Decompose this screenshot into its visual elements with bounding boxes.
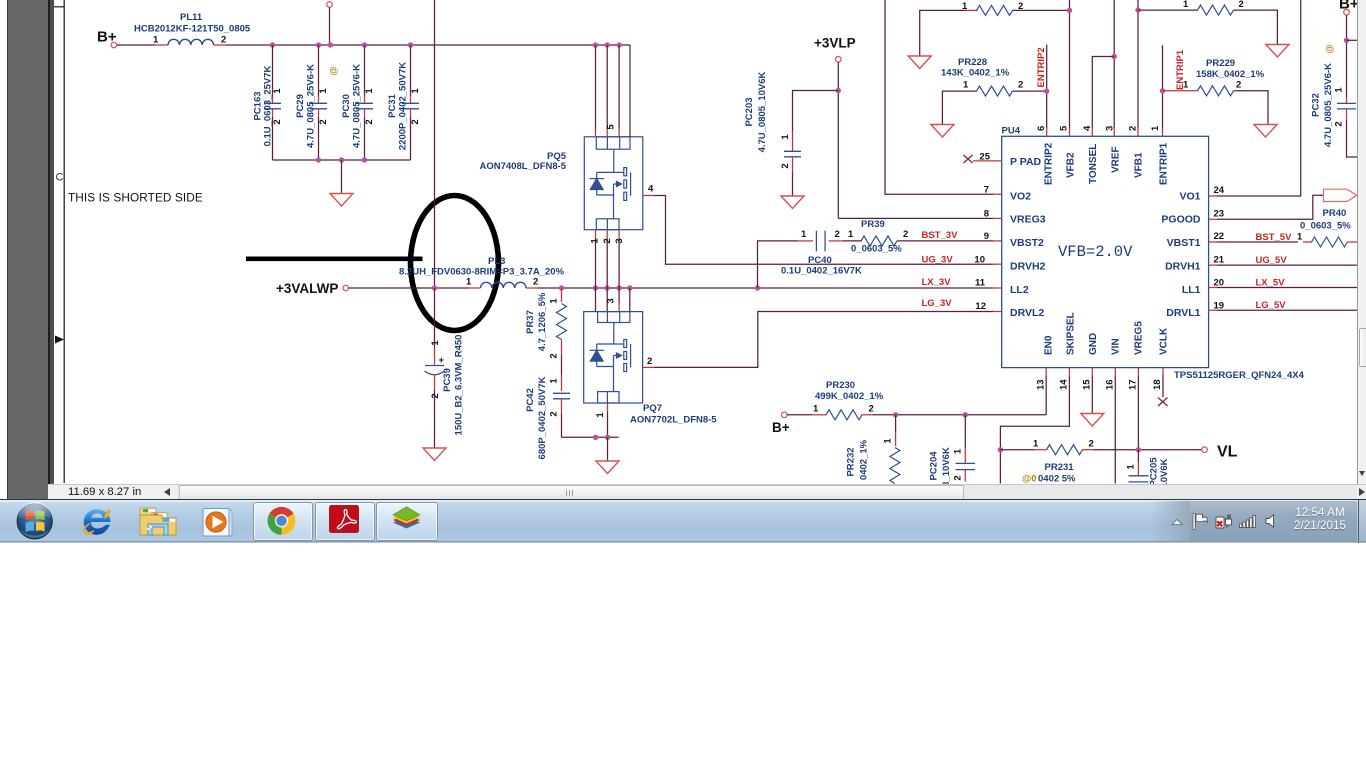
svg-text:150U_B2_6.3VM_R450: 150U_B2_6.3VM_R450 (454, 335, 465, 436)
svg-text:ENTRIP1: ENTRIP1 (1159, 142, 1170, 185)
annotation ellipse (411, 196, 499, 331)
svg-text:C: C (56, 172, 64, 184)
svg-text:BST_3V: BST_3V (922, 230, 959, 241)
svg-text:PC204: PC204 (929, 451, 940, 481)
svg-text:1: 1 (780, 134, 791, 140)
svg-text:1: 1 (1033, 439, 1039, 450)
svg-text:DRVH1: DRVH1 (1165, 261, 1201, 273)
PU4 left pin names (1010, 156, 1046, 319)
svg-text:PL3: PL3 (488, 256, 505, 267)
viewer furniture: left gray panel (0, 0, 7, 499)
svg-text:2: 2 (549, 353, 560, 358)
svg-text:16: 16 (1105, 379, 1116, 390)
svg-text:+3VALWP: +3VALWP (276, 281, 338, 296)
svg-text:5: 5 (1059, 125, 1070, 131)
svg-text:UG_3V: UG_3V (922, 255, 954, 266)
wire VREG3 row to PU4 pin 8 (838, 217, 993, 219)
svg-text:PGOOD: PGOOD (1161, 214, 1201, 226)
annotation thick black line (246, 256, 423, 261)
transistor PQ7 (584, 312, 643, 403)
svg-text:0402 5%: 0402 5% (1038, 474, 1076, 485)
svg-text:LG_5V: LG_5V (1256, 300, 1287, 311)
svg-text:VREF: VREF (1111, 146, 1122, 173)
wire LX rail to PU4 pin 11 (538, 287, 993, 289)
ground top right (1266, 45, 1289, 58)
capacitor PC204 (929, 415, 976, 487)
svg-text:VFB1: VFB1 (1134, 152, 1145, 178)
svg-text:8.2UH_FDV0630-8RIM=P3_3.7A_20%: 8.2UH_FDV0630-8RIM=P3_3.7A_20% (399, 267, 565, 278)
frame position arrow (55, 336, 64, 344)
long vertical wire through ellipse (434, 0, 436, 288)
svg-text:VO1: VO1 (1179, 191, 1200, 203)
svg-text:3: 3 (1105, 126, 1116, 131)
svg-text:ENTRIP2: ENTRIP2 (1044, 142, 1055, 185)
svg-text:0402_1%: 0402_1% (859, 439, 870, 480)
svg-text:LX_3V: LX_3V (922, 277, 952, 288)
PU4 right pin names (1161, 191, 1201, 320)
svg-text:0.1U_0603_25V7K: 0.1U_0603_25V7K (263, 65, 274, 146)
svg-text:2: 2 (549, 411, 560, 416)
svg-text:1: 1 (549, 378, 560, 384)
resistor PR37 (525, 288, 567, 359)
svg-text:1: 1 (466, 277, 472, 288)
svg-text:PR232: PR232 (846, 447, 857, 476)
svg-text:1: 1 (1183, 80, 1189, 91)
svg-text:1: 1 (883, 438, 894, 444)
svg-text:PC30: PC30 (341, 94, 352, 118)
pin 18 no-connect X (1162, 368, 1164, 374)
IE icon (80, 507, 114, 537)
svg-text:VL: VL (1217, 444, 1238, 461)
svg-text:2: 2 (835, 229, 840, 240)
svg-text:2: 2 (953, 475, 964, 480)
tray show-hidden arrow (1170, 517, 1184, 527)
svg-text:15: 15 (1082, 379, 1093, 390)
svg-text:4.7U_0805_25V6-K: 4.7U_0805_25V6-K (352, 64, 363, 148)
frame tick (54, 6, 65, 8)
svg-text:0_0603_5%: 0_0603_5% (851, 244, 902, 255)
svg-text:1: 1 (410, 88, 421, 94)
svg-text:4.7U_0805_25V6-K: 4.7U_0805_25V6-K (306, 64, 317, 148)
wires B+ rail down to PQ5 drain pins (595, 45, 597, 129)
svg-text:10V6K: 10V6K (1159, 458, 1170, 484)
off-page connector arrow PGOOD (1324, 189, 1357, 201)
svg-text:2: 2 (221, 35, 226, 46)
svg-text:PC205: PC205 (1149, 457, 1160, 484)
svg-text:1: 1 (590, 238, 601, 244)
svg-text:1: 1 (549, 298, 560, 304)
svg-text:2: 2 (1239, 0, 1244, 10)
wire LX dot up to bootstrap row (758, 241, 799, 288)
capacitor PC205 (cut at bottom) (1126, 450, 1171, 488)
svg-text:2: 2 (1128, 126, 1139, 131)
PU4 bottom pin numbers (1036, 379, 1164, 390)
tray signal bars icon (1239, 515, 1257, 528)
svg-text:0.1U_0402_16V7K: 0.1U_0402_16V7K (781, 266, 862, 277)
PQ5 pin 4 (gate) wire to DRVH2 (643, 195, 654, 197)
wire VREF riser (pin 3) with branch to TONSEL (pin 4) (1113, 0, 1115, 128)
resistor PR229 (1163, 58, 1269, 125)
svg-text:PR229: PR229 (1206, 58, 1235, 69)
svg-text:5: 5 (606, 124, 617, 130)
wire VO1 pin 24 to top riser (1209, 195, 1217, 197)
svg-text:PR231: PR231 (1045, 462, 1075, 473)
svg-text:PC42: PC42 (525, 388, 536, 412)
net stub ENTRIP1 (pin 1) (1162, 45, 1164, 128)
capacitor PC40 (781, 229, 862, 277)
wire EN0 pin 13 down to B+ rail (1045, 368, 1047, 376)
svg-text:PL11: PL11 (180, 12, 203, 23)
svg-text:3: 3 (614, 238, 625, 243)
svg-text:2: 2 (364, 119, 375, 124)
ground under PR229 (1254, 125, 1277, 138)
svg-text:1: 1 (813, 404, 819, 415)
tray clock (1286, 506, 1354, 532)
svg-text:VO2: VO2 (1010, 191, 1031, 203)
svg-text:VREG3: VREG3 (1010, 214, 1046, 226)
tray flag icon (1192, 513, 1208, 530)
bluestacks task button (376, 502, 438, 541)
resistor PR230 (772, 380, 1046, 435)
svg-text:P PAD: P PAD (1010, 156, 1042, 168)
capacitor PC29 (295, 45, 329, 160)
svg-text:158K_0402_1%: 158K_0402_1% (1196, 69, 1265, 80)
svg-text:DRVL2: DRVL2 (1010, 307, 1044, 319)
PU4 left pin numbers (974, 152, 990, 313)
svg-text:4: 4 (1082, 125, 1093, 131)
svg-text:GND: GND (1088, 333, 1099, 355)
wire VFB2 riser (pin 5) (1069, 0, 1071, 128)
svg-text:VIN: VIN (1111, 338, 1122, 355)
ground riser with divider resistor (top) (920, 10, 966, 56)
svg-text:20: 20 (1214, 278, 1225, 289)
wire LL1 pin 20 (1209, 287, 1217, 289)
svg-text:BST_5V: BST_5V (1256, 232, 1293, 243)
chrome task button (253, 502, 313, 541)
resistor PR228 (941, 57, 1047, 125)
svg-text:1: 1 (272, 88, 283, 94)
svg-text:@: @ (329, 66, 340, 75)
svg-text:PU4: PU4 (1002, 126, 1021, 137)
resistor (top divider) (962, 1, 1070, 15)
svg-text:AON7702L_DFN8-5: AON7702L_DFN8-5 (630, 415, 717, 426)
svg-text:VFB=2.0V: VFB=2.0V (1058, 243, 1133, 261)
adobe reader task button (315, 502, 375, 541)
tray network (no connection) icon (1215, 513, 1232, 530)
vertical scrollbar (1357, 0, 1366, 484)
svg-text:1: 1 (430, 340, 441, 346)
svg-text:1: 1 (953, 448, 964, 454)
wire VIN pin 16 down (1114, 368, 1116, 376)
svg-text:LL1: LL1 (1182, 284, 1201, 296)
svg-text:2: 2 (318, 119, 329, 124)
ground under PQ7 (596, 461, 619, 474)
svg-text:10: 10 (974, 255, 985, 266)
svg-text:13: 13 (1036, 379, 1047, 390)
svg-text:3_10V6K: 3_10V6K (941, 447, 952, 484)
show desktop (1358, 500, 1360, 543)
wire VREG5 pin 17 down to VL row (1137, 368, 1139, 376)
PQ5 source pins 1,2,3 down to LX rail (595, 230, 597, 238)
svg-text:ENTRIP2: ENTRIP2 (1036, 47, 1047, 87)
wire cap bank bottom rail (273, 159, 411, 161)
capacitor PC39 (polarized) (425, 288, 465, 448)
capacitor PC30 (329, 45, 376, 160)
wire B+ to PL11 (117, 44, 155, 46)
svg-text:2: 2 (272, 119, 283, 124)
svg-text:PC203: PC203 (744, 97, 755, 126)
svg-text:UG_5V: UG_5V (1256, 255, 1288, 266)
bottom edge (0, 541, 1366, 542)
svg-text:4.7U_0805_25V6-K: 4.7U_0805_25V6-K (1323, 63, 1334, 147)
svg-text:143K_0402_1%: 143K_0402_1% (941, 68, 1010, 79)
resistor PR40 (1209, 208, 1357, 247)
svg-text:4.7U_0805_10V6K: 4.7U_0805_10V6K (757, 71, 768, 152)
wires LX rail down to PQ7 drain pins (595, 288, 597, 312)
svg-text:LL2: LL2 (1010, 284, 1029, 296)
svg-text:HCB2012KF-121T50_0805: HCB2012KF-121T50_0805 (134, 24, 251, 35)
wire bottom ground rail (562, 436, 619, 438)
taskbar (0, 499, 1366, 543)
resistor PR39 (843, 219, 1002, 255)
svg-text:1: 1 (364, 88, 375, 94)
svg-text:680P_0402_50V7K: 680P_0402_50V7K (537, 376, 548, 459)
op-amp U1 : controller IC PU4 body (1002, 136, 1209, 367)
status bar with horizontal scrollbar (48, 484, 1366, 501)
capacitor PC203 (744, 71, 838, 196)
svg-text:2: 2 (780, 163, 791, 168)
net stub ENTRIP2 (pin 6) (1046, 45, 1048, 128)
svg-text:1: 1 (848, 229, 854, 240)
resistor (VFB1 divider, top right) (1138, 0, 1277, 45)
capacitor PC31 (387, 45, 421, 160)
svg-text:PC32: PC32 (1311, 93, 1322, 117)
wire VO2 riser to pin 7 (885, 0, 993, 194)
windows media player icon (200, 507, 236, 538)
svg-text:2: 2 (869, 404, 874, 415)
svg-text:VBST1: VBST1 (1167, 237, 1201, 249)
svg-text:PC29: PC29 (295, 94, 306, 118)
PU4 bottom pin names (rotated) (1044, 312, 1170, 355)
svg-text:@: @ (1325, 44, 1336, 53)
svg-text:22: 22 (1214, 231, 1225, 242)
pin 25 no-connect X (964, 155, 973, 163)
svg-text:11: 11 (975, 278, 986, 289)
svg-text:1: 1 (1126, 464, 1137, 470)
svg-text:2: 2 (410, 119, 421, 124)
svg-text:8: 8 (984, 209, 989, 220)
svg-text:18: 18 (1152, 379, 1163, 390)
svg-text:VCLK: VCLK (1159, 327, 1170, 355)
svg-text:2: 2 (1236, 80, 1241, 91)
capacitor PC42 (525, 355, 570, 459)
svg-text:1: 1 (1334, 87, 1345, 93)
svg-text:SKIPSEL: SKIPSEL (1066, 312, 1077, 355)
capacitor PC32 (1311, 44, 1358, 157)
wire to ground stem (341, 160, 343, 194)
junction dots on B+ rail (270, 42, 275, 47)
resistor PR231 (1000, 439, 1201, 485)
resistor PR232 (vertical, cut at bottom) (846, 415, 900, 484)
svg-text:2: 2 (602, 238, 613, 243)
svg-text:EN0: EN0 (1044, 335, 1055, 355)
svg-text:VFB2: VFB2 (1066, 152, 1077, 178)
svg-text:2: 2 (533, 277, 538, 288)
node VL port (1202, 447, 1208, 453)
svg-text:1: 1 (801, 229, 807, 240)
svg-text:PR228: PR228 (958, 57, 987, 68)
svg-text:1: 1 (962, 1, 968, 12)
svg-text:2: 2 (1018, 1, 1023, 12)
svg-text:1: 1 (1297, 232, 1303, 243)
svg-text:1: 1 (595, 412, 606, 418)
svg-text:AON7408L_DFN8-5: AON7408L_DFN8-5 (480, 161, 567, 172)
svg-text:2: 2 (1334, 121, 1345, 126)
svg-text:1: 1 (963, 80, 969, 91)
svg-text:1: 1 (318, 88, 329, 94)
svg-text:1: 1 (1150, 125, 1161, 131)
svg-text:2: 2 (430, 393, 441, 398)
wire +3VALWP to PL3 (349, 287, 469, 289)
svg-text:17: 17 (1128, 379, 1139, 390)
PU4 top pin numbers (1036, 125, 1161, 131)
svg-text:PC31: PC31 (387, 93, 398, 117)
svg-text:LG_3V: LG_3V (922, 298, 953, 309)
svg-text:DRVL1: DRVL1 (1166, 307, 1200, 319)
svg-text:14: 14 (1059, 379, 1070, 390)
wire +3VLP down to VREG3 row (837, 62, 839, 218)
svg-text:2: 2 (1018, 80, 1023, 91)
svg-text:B+: B+ (772, 420, 790, 435)
svg-text:499K_0402_1%: 499K_0402_1% (815, 391, 884, 402)
svg-text:VBST2: VBST2 (1010, 237, 1044, 249)
svg-text:12: 12 (975, 301, 986, 312)
wire PGOOD pin 23 to off-page arrow (1209, 218, 1217, 220)
PU4 right pin numbers (1214, 185, 1225, 312)
transistor PQ5 (584, 137, 643, 230)
folder icon (139, 506, 177, 537)
ground under PC39 (423, 448, 446, 461)
svg-text:PC40: PC40 (808, 255, 832, 266)
ground under cap bank (330, 194, 353, 207)
svg-text:VREG5: VREG5 (1134, 321, 1145, 355)
wire PL11 to cap bank rail (214, 44, 226, 46)
svg-text:24: 24 (1214, 185, 1225, 196)
svg-text:TONSEL: TONSEL (1088, 144, 1099, 184)
svg-text:PR40: PR40 (1323, 208, 1347, 219)
ground under PC203 (781, 196, 804, 209)
svg-text:DRVH2: DRVH2 (1010, 261, 1046, 273)
svg-text:2: 2 (1089, 439, 1094, 450)
ground under PR228 (931, 125, 954, 138)
svg-text:2200P_0402_50V7K: 2200P_0402_50V7K (398, 62, 409, 150)
svg-text:3: 3 (606, 298, 617, 303)
page frame left border line (63, 0, 65, 483)
PU4 top pin names (rotated) (1044, 142, 1170, 185)
PQ7 pin 2 (gate) wire to DRVL2 (643, 366, 654, 368)
wire DRVH1 pin 21 (1209, 264, 1217, 266)
tray speaker icon (1265, 514, 1279, 528)
svg-text:4: 4 (648, 184, 654, 195)
right tray slightly darker (1150, 501, 1357, 542)
svg-text:23: 23 (1214, 209, 1225, 220)
svg-text:PR230: PR230 (826, 380, 855, 391)
SCHEMATIC AREA (0, 0, 1366, 484)
svg-text:TPS51125RGER_QFN24_4X4: TPS51125RGER_QFN24_4X4 (1174, 370, 1305, 381)
svg-text:PC39: PC39 (442, 368, 453, 392)
svg-text:9: 9 (984, 231, 989, 242)
svg-text:0_0603_5%: 0_0603_5% (1300, 221, 1351, 232)
wire GND pin 15 to ground (1091, 368, 1093, 376)
wire VFB1 riser (pin 2) (1137, 0, 1139, 128)
wire DRVL1 pin 19 (1209, 309, 1217, 311)
svg-text:PR39: PR39 (861, 219, 885, 230)
start orb (15, 502, 55, 541)
svg-text:@0: @0 (1022, 474, 1037, 485)
svg-text:PQ7: PQ7 (643, 403, 662, 414)
wire SKIPSEL pin 14 path (1068, 368, 1070, 376)
capacitor PC163 (253, 45, 284, 160)
svg-text:7: 7 (984, 185, 989, 196)
svg-text:PR37: PR37 (525, 310, 536, 334)
svg-text:+3VLP: +3VLP (814, 36, 856, 51)
svg-text:LX_5V: LX_5V (1256, 278, 1286, 289)
svg-text:6: 6 (1036, 126, 1047, 131)
node port stub at top (327, 2, 333, 8)
svg-text:21: 21 (1214, 255, 1225, 266)
svg-text:2: 2 (903, 229, 908, 240)
svg-text:1: 1 (153, 35, 159, 46)
svg-text:2: 2 (647, 356, 652, 367)
svg-text:4.7_1206_5%: 4.7_1206_5% (537, 292, 548, 351)
PQ7 source pin 1 to ground rail (607, 403, 609, 412)
svg-text:THIS IS SHORTED SIDE: THIS IS SHORTED SIDE (68, 191, 203, 205)
svg-text:1: 1 (1183, 0, 1189, 10)
svg-text:+: + (439, 355, 445, 366)
